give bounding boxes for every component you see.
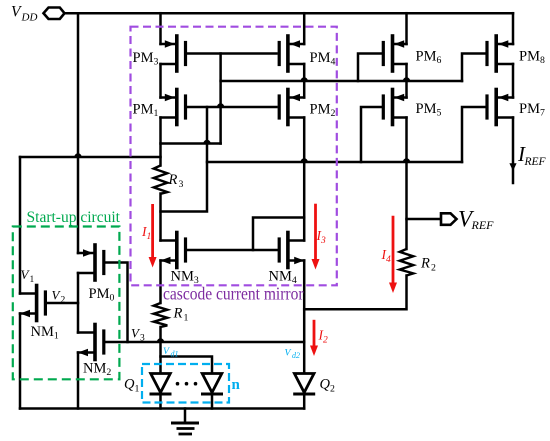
svg-text:V: V <box>163 346 170 357</box>
VREF pin symbol <box>441 213 457 225</box>
svg-text:1: 1 <box>30 275 35 285</box>
svg-text:2: 2 <box>323 336 328 346</box>
transistor PM6 <box>383 36 406 71</box>
wire PM4 drain to PM2 source <box>303 64 306 98</box>
label Q2 <box>320 377 336 395</box>
svg-text:R: R <box>420 256 430 272</box>
svg-text:d1: d1 <box>171 350 179 359</box>
wire PM0 drain to NM2 drain <box>77 273 80 333</box>
wire vertical gate tie B <box>219 54 222 144</box>
resistor R3 <box>154 166 168 194</box>
wire VDD drop to PM3 source <box>159 13 162 44</box>
transistor PM7 <box>487 90 513 125</box>
current arrow I2 <box>310 320 318 356</box>
label I2 <box>318 328 329 346</box>
wire vertical A <box>161 107 208 212</box>
svg-text:2: 2 <box>61 296 66 306</box>
svg-text:3: 3 <box>179 179 184 190</box>
wire R2 bottom to Vd2 <box>304 276 406 310</box>
wire NM4 source to Q2 <box>303 261 306 374</box>
wire PM5 drain down to R2 <box>405 118 408 250</box>
label V2 <box>52 288 66 306</box>
wire hop at node X <box>203 140 210 144</box>
label I3 <box>316 228 327 246</box>
transistor PM2 <box>279 90 304 125</box>
svg-text:DD: DD <box>21 12 38 24</box>
wire VDD drop to PM0 source <box>77 13 80 253</box>
wire hop at bias rail y81 right <box>403 77 410 81</box>
wire PM7 gate <box>462 107 487 162</box>
svg-text:REF: REF <box>471 218 495 232</box>
wire NM3 source to R1 <box>159 261 162 304</box>
label Vd2 <box>285 348 301 361</box>
svg-text:Start-up circuit: Start-up circuit <box>27 209 121 226</box>
transistor PM1 <box>161 90 186 125</box>
svg-text:cascode current mirror: cascode current mirror <box>163 284 304 304</box>
label PM2 <box>310 102 336 120</box>
wire startup tap y157 <box>20 156 161 159</box>
wire PM2 drain down to NM4 drain <box>303 118 306 241</box>
wire PM0 gate <box>104 263 128 343</box>
wire node X horizontal <box>161 142 221 145</box>
label Start-up circuit <box>27 209 121 226</box>
label R1 <box>173 306 189 324</box>
wire VDD top rail <box>65 12 514 15</box>
svg-text:1: 1 <box>147 232 152 242</box>
wire PM1 drain to R3 <box>159 118 162 166</box>
wire cascode bias rail y81 <box>221 80 462 83</box>
wire PM8 drain to PM7 source <box>512 64 515 98</box>
wire gate line PM3-PM4 <box>186 52 277 55</box>
label PM0 <box>89 286 115 304</box>
svg-text:2: 2 <box>330 384 335 395</box>
transistor NM1 <box>20 286 45 321</box>
diode Dn <box>201 374 223 409</box>
transistor NM4 <box>279 233 304 268</box>
wire hop at startup tap <box>74 153 81 157</box>
wire NM2 source to ground <box>77 353 80 409</box>
wire ground rail <box>20 407 304 410</box>
transistor PM8 <box>487 36 513 71</box>
current arrow I3 <box>312 204 320 270</box>
svg-text:R: R <box>168 172 178 188</box>
ground symbol <box>171 409 199 435</box>
wire PM8 gate <box>462 54 487 82</box>
wire R1 bottom to V3 node <box>159 327 162 357</box>
svg-text:d2: d2 <box>292 351 300 360</box>
label PM5 <box>416 101 442 119</box>
label R3 <box>168 172 184 190</box>
wire V3 line <box>105 341 305 344</box>
label NM1 <box>31 324 59 342</box>
wire V2 NM1 gate <box>45 302 78 305</box>
transistor PM5 <box>383 90 406 125</box>
current arrow I4 <box>389 216 397 293</box>
label VREF <box>458 207 494 233</box>
dots ellipsis <box>176 382 198 386</box>
wire Vd1 branch <box>161 357 213 374</box>
wire PM7 drain IREF <box>509 118 516 184</box>
svg-text:3: 3 <box>320 236 326 246</box>
label V1 <box>21 267 35 285</box>
wire VDD drop to PM8 source <box>512 13 515 44</box>
transistor PM4 <box>279 36 304 71</box>
svg-text:R: R <box>173 306 183 322</box>
wire VDD drop to PM6 source <box>405 13 408 44</box>
wire PM6 drain to PM5 source <box>405 64 408 98</box>
label PM3 <box>133 50 159 68</box>
VDD pin symbol <box>44 8 65 20</box>
wire VDD drop to PM4 source <box>303 13 306 44</box>
label Vd1 <box>163 346 179 359</box>
wire NM1 source to ground <box>19 314 22 409</box>
svg-text:4: 4 <box>386 255 391 265</box>
label n <box>232 377 241 393</box>
label cascode current mirror <box>163 284 304 304</box>
label IREF <box>517 142 547 168</box>
purple dashed box cascode <box>131 27 337 286</box>
resistor R1 <box>154 303 168 327</box>
wire bias line y162 <box>207 161 462 164</box>
svg-text:REF: REF <box>524 156 547 168</box>
resistor R2 <box>400 249 414 276</box>
diode Q2 <box>293 374 315 409</box>
wire hop at gate line PM1-PM2 <box>217 103 224 107</box>
wire hop at bias rail y81 <box>300 77 307 81</box>
label PM7 <box>519 101 545 119</box>
wire hop at bias line y162 right <box>403 158 410 162</box>
transistor PM0 <box>78 245 104 280</box>
wire hop at V3 line <box>157 338 164 342</box>
svg-text:1: 1 <box>184 313 189 324</box>
svg-text:Q: Q <box>124 377 135 393</box>
transistor NM3 <box>161 233 186 268</box>
wire VREF tap <box>407 218 442 221</box>
label I1 <box>141 224 151 242</box>
wire NM4 gate tie to drain <box>253 218 304 251</box>
label PM4 <box>310 50 336 68</box>
svg-text:1: 1 <box>135 384 140 395</box>
label PM6 <box>416 49 442 67</box>
transistor NM2 <box>78 325 104 360</box>
wire PM5 gate <box>361 107 383 162</box>
wire hop at bias line y162 <box>300 158 307 162</box>
wire gate line NM3-NM4 <box>186 249 280 252</box>
label V3 <box>131 326 145 344</box>
wire PM6 gate <box>358 54 383 82</box>
svg-text:V: V <box>11 4 22 21</box>
cyan dashed box diodes <box>142 364 229 403</box>
current arrow I1 <box>149 204 157 268</box>
transistor PM3 <box>161 36 186 71</box>
svg-text:3: 3 <box>140 334 145 344</box>
label I4 <box>381 247 392 265</box>
svg-text:V: V <box>285 348 292 359</box>
svg-text:2: 2 <box>431 263 436 274</box>
label Q1 <box>124 377 140 395</box>
label NM3 <box>171 269 199 287</box>
wire gate line PM1-PM2 <box>186 106 277 109</box>
label NM4 <box>269 269 297 287</box>
wire R3 bottom to NM3 drain <box>159 194 162 241</box>
label NM2 <box>83 361 111 379</box>
label VDD <box>11 4 37 24</box>
label R2 <box>420 256 436 274</box>
svg-text:n: n <box>232 377 241 393</box>
green dashed box startup <box>13 227 120 380</box>
diode Q1 <box>150 374 172 409</box>
svg-text:Q: Q <box>320 377 331 393</box>
label PM1 <box>133 102 159 120</box>
wire V1 vertical <box>19 157 22 294</box>
wire PM3 drain to PM1 source <box>159 64 162 98</box>
label PM8 <box>519 49 545 67</box>
